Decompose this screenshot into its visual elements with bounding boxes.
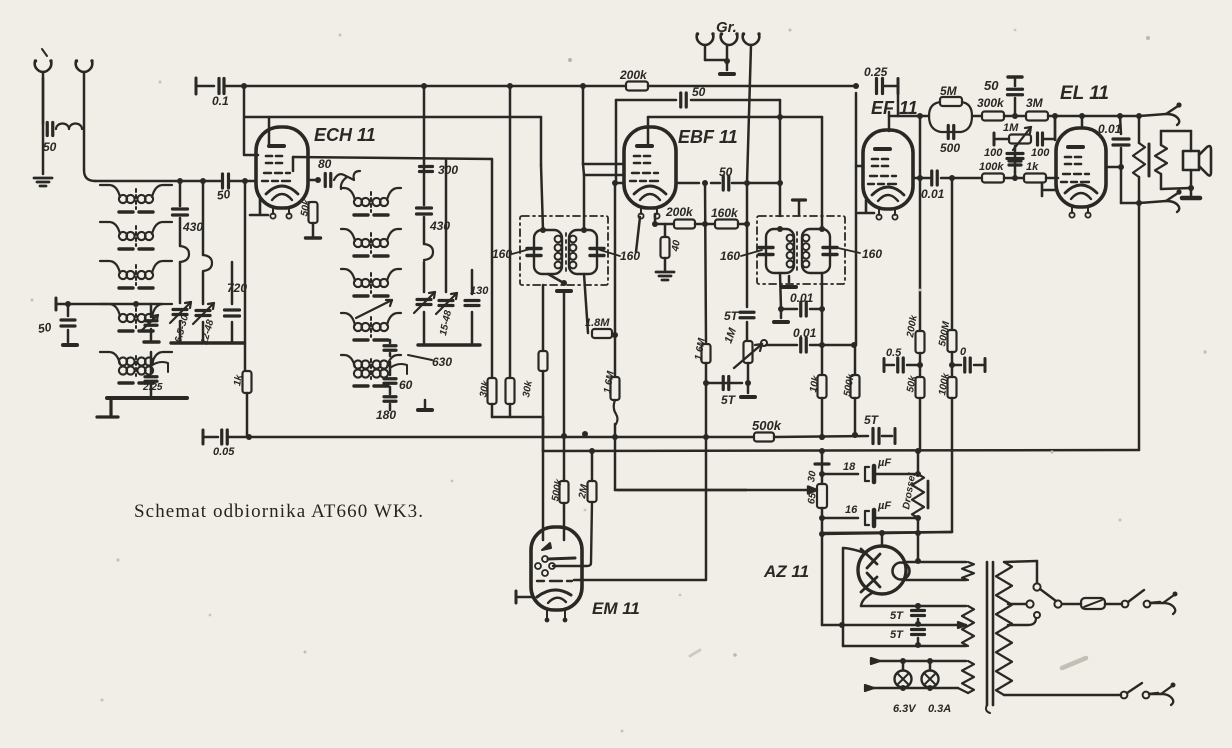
svg-text:630: 630 — [432, 355, 452, 369]
IF transformer T1 shield (dashed box) — [520, 216, 608, 285]
wire x918 vertical — [917, 451, 920, 474]
capacitor 5T (filter a) — [912, 611, 925, 616]
svg-text:AZ 11: AZ 11 — [763, 562, 809, 581]
wire x822 top feed — [821, 117, 824, 229]
tube ECH11 envelope — [256, 127, 308, 208]
hook (output bottom) — [1166, 193, 1178, 201]
tube EBF11 cathode — [634, 186, 666, 194]
transformer 6.3V winding — [962, 661, 974, 693]
resistor 65/30 (bleeder) — [815, 462, 829, 465]
svg-text:2.25: 2.25 — [142, 382, 163, 393]
wire x584 diode line — [584, 174, 624, 177]
IF T1 primary tank — [534, 230, 562, 274]
IF T2 ground — [788, 276, 791, 282]
svg-text:80: 80 — [318, 157, 332, 171]
resistor 3M — [1026, 112, 1048, 121]
antenna band coil L1 — [119, 195, 127, 203]
svg-text:180: 180 — [376, 408, 396, 422]
antenna band coil L2 — [119, 232, 127, 240]
svg-text:0.01: 0.01 — [921, 187, 945, 201]
capacitor 0.01 (a) — [781, 308, 797, 311]
capacitor 0.01 (b) — [766, 344, 797, 347]
capacitor 50 (H2) — [681, 93, 687, 107]
wire x856 to EF11 grid — [855, 93, 858, 345]
IF T2 shield tap — [793, 198, 806, 201]
resistor 2M — [591, 451, 594, 480]
capacitor 0.1 — [219, 79, 224, 94]
capacitor 50 (EBF out) — [723, 176, 729, 190]
IF T1 core dashes — [565, 233, 567, 275]
wire EBF cathode pins — [654, 214, 657, 224]
trimmer (gang2 a) — [417, 300, 431, 305]
capacitor 630 (padder) — [389, 340, 392, 343]
wire y181 main tuning line — [95, 180, 221, 183]
ground (pot) — [747, 383, 750, 393]
tube EF11 anode — [875, 147, 890, 151]
wire bus2 — [543, 450, 1139, 451]
nodes on H1 — [241, 83, 247, 89]
EM11 deflector flag — [542, 543, 551, 550]
trimmer (L4) — [150, 304, 153, 317]
wire x543 down — [542, 285, 545, 350]
capacitor 50 (antenna) — [42, 78, 45, 174]
wire 200k/160k line — [636, 217, 640, 252]
resistor 1.6M (x706) — [702, 344, 711, 363]
AZ11 anodes — [861, 549, 880, 568]
oscillator band coil L13 — [354, 279, 362, 287]
oscillator trimmer arrow — [356, 300, 392, 318]
tube ECH11 cathode — [266, 186, 298, 194]
resistor 500k (bus) — [754, 433, 774, 442]
wire EM11 line to bleeder tap — [746, 489, 815, 491]
node 180/181 — [177, 178, 183, 184]
wire filament lead 3 — [843, 645, 966, 648]
ground L-symbol — [97, 400, 118, 417]
tube EF11 cathode — [872, 187, 904, 195]
wire y116 to output — [1081, 116, 1084, 128]
output transformer primary — [1138, 116, 1141, 143]
capacitor 180 — [389, 387, 392, 394]
resistor 1.6M (x615) — [614, 335, 617, 375]
ground (speaker) — [1190, 188, 1193, 196]
wire det out — [821, 309, 824, 345]
primary top lead — [1004, 561, 1037, 562]
pickup jacks — [696, 32, 715, 45]
wire bus2 riser to output — [1138, 203, 1141, 450]
tube EM11 envelope — [531, 527, 582, 610]
pilot lamp 2 — [929, 661, 932, 670]
voltage tap 2 — [1008, 624, 1028, 627]
tube ECH11 pins — [273, 208, 289, 214]
resistor 200k (AVC) — [626, 82, 648, 91]
wire output bottom — [1121, 202, 1139, 205]
wire filament center lead — [822, 624, 966, 627]
coupling coil — [56, 124, 82, 130]
svg-text:1M: 1M — [1003, 122, 1019, 134]
capacitor 5T (bus1 end) — [873, 429, 879, 444]
AZ11 top lead — [881, 534, 884, 546]
resistor 100k (b) — [951, 365, 954, 376]
wire x920 down — [919, 178, 922, 330]
capacitor 0.25 — [877, 79, 883, 94]
resistor 500k (det) — [854, 345, 857, 374]
switch (mains a) — [1122, 601, 1129, 608]
resistor 100k — [982, 174, 1004, 183]
svg-text:50: 50 — [692, 85, 706, 99]
tube AZ11 envelope — [858, 546, 906, 594]
antenna band coil L4 — [119, 314, 127, 322]
svg-text:160: 160 — [720, 249, 740, 263]
capacitor 300 — [445, 159, 448, 292]
fuse — [1062, 603, 1081, 606]
capacitor 0.01 (EF out) — [932, 171, 938, 185]
wire EF11 plate stem — [888, 112, 891, 131]
IF T2 secondary tank — [802, 229, 830, 273]
switch (mains b) — [1121, 692, 1128, 699]
transformer primary winding — [996, 562, 1012, 695]
IF T1 secondary tank — [569, 230, 597, 274]
svg-text:EBF 11: EBF 11 — [678, 127, 738, 147]
svg-text:0.05: 0.05 — [213, 446, 235, 458]
svg-text:5T: 5T — [890, 610, 904, 622]
svg-text:5M: 5M — [940, 84, 958, 98]
svg-text:160: 160 — [492, 247, 512, 261]
plug prong a — [1152, 602, 1163, 605]
wire x952 vertical — [951, 178, 954, 329]
wire 30k common — [491, 404, 494, 417]
wire ECH11 osc grid line — [292, 157, 295, 171]
resistor 200k (diode load) — [674, 220, 695, 229]
wire vertical x245 (AVC) — [243, 85, 246, 155]
ground (band filter) — [63, 343, 77, 347]
wire T1 secondary bottom to 1.8M — [584, 274, 588, 333]
hook (output top) — [1166, 106, 1178, 114]
wire EM11 feeds — [563, 436, 566, 480]
wire T2 leads down — [780, 273, 781, 309]
wire x615 long vertical — [615, 100, 618, 183]
wire H2 50pF line — [616, 99, 676, 102]
capacitor 60 — [389, 362, 392, 375]
wire EM11 target line — [574, 579, 580, 582]
svg-text:1k: 1k — [1026, 161, 1039, 173]
svg-text:130: 130 — [470, 285, 489, 297]
heater rail bottom — [865, 685, 874, 691]
capacitor 50 (mixer grid) — [223, 174, 229, 188]
svg-text:50: 50 — [719, 165, 733, 179]
wire ECH11 anode to IF1 — [268, 117, 271, 146]
svg-text:0.5: 0.5 — [886, 347, 902, 359]
svg-text:430: 430 — [182, 220, 203, 234]
wire y178 run — [913, 177, 931, 180]
tube EL11 anode — [1068, 145, 1083, 149]
svg-text:5T: 5T — [724, 309, 740, 323]
svg-text:60: 60 — [399, 378, 413, 392]
svg-text:3M: 3M — [1026, 96, 1044, 110]
svg-text:1.8M: 1.8M — [585, 317, 610, 329]
wire vertical x180 — [179, 181, 182, 206]
trimmer 12-48 — [196, 311, 210, 316]
capacitor 0.05 — [222, 430, 228, 444]
svg-text:50: 50 — [43, 140, 57, 154]
selector blade — [1040, 589, 1056, 601]
svg-text:0.3A: 0.3A — [928, 703, 951, 715]
antenna A1 — [42, 49, 47, 56]
transformer core — [986, 562, 989, 705]
trimmer 6.5-30 — [173, 310, 187, 315]
tube EL11 grids — [1065, 157, 1081, 164]
trimmer 15-48 — [439, 301, 453, 306]
wire vertical x232 — [231, 262, 234, 304]
svg-text:300: 300 — [438, 163, 458, 177]
svg-text:EL 11: EL 11 — [1060, 83, 1109, 104]
wire bus1 (chassis) — [202, 430, 205, 444]
oscillator band coil L12 — [354, 239, 362, 247]
capacitor 0.01 (EL plate) — [1120, 116, 1121, 134]
svg-text:50: 50 — [37, 320, 53, 336]
gang base bar right — [418, 343, 480, 346]
antenna band coil L5 — [119, 357, 127, 365]
svg-text:200k: 200k — [619, 68, 648, 82]
tube EL11 cathode — [1065, 185, 1097, 193]
choke Drossel — [912, 474, 924, 518]
wire Gr line x747 — [747, 45, 751, 183]
ground (osc) — [424, 400, 427, 408]
svg-text:40: 40 — [670, 239, 683, 253]
IF T2 core dashes — [796, 232, 798, 274]
svg-text:0: 0 — [960, 346, 967, 358]
capacitor 0.5 — [886, 364, 894, 367]
svg-text:Gr.: Gr. — [716, 19, 737, 36]
AZ11 pinch circle — [893, 563, 910, 580]
AZ11 plate leads to HT winding — [906, 561, 966, 564]
resistor 160k — [715, 220, 738, 229]
capacitor 50 (screen) — [1014, 98, 1017, 116]
resistor 200k (divider) — [916, 331, 925, 353]
wire x706 vertical — [705, 183, 706, 342]
EM11 grid dash — [537, 580, 572, 582]
wire EBF11 top grid — [647, 117, 650, 146]
EM11 cathode arc — [537, 590, 571, 597]
capacitor 5T (cathode) — [706, 382, 742, 385]
wire x920 vertical — [919, 116, 922, 178]
capacitor 16uF — [822, 517, 858, 520]
coil column base bar — [107, 396, 187, 400]
transformer HT winding — [962, 562, 974, 580]
resistor 500k (EM11) — [560, 481, 569, 503]
EF11 cathode stub — [858, 200, 874, 213]
capacitor 18uF — [822, 473, 858, 476]
speaker — [1183, 151, 1199, 170]
resistor 50k (divider) — [919, 365, 922, 376]
EL11 grid entry — [1054, 116, 1057, 140]
AZ11 left lead — [843, 548, 865, 553]
ground (pickup) — [720, 72, 734, 76]
capacitor 130 — [471, 270, 474, 294]
primary bottom lead — [1004, 694, 1121, 697]
svg-text:EM 11: EM 11 — [592, 599, 640, 618]
wire row4 tap line — [56, 303, 162, 306]
capacitor 80 — [325, 174, 331, 187]
EM11 left stub — [517, 596, 533, 599]
wire y533 HT line — [822, 532, 952, 534]
wire y181 into ECH11 — [308, 179, 318, 181]
wire vertical x424 — [423, 86, 426, 205]
tube EL11 pins — [1072, 207, 1088, 213]
smudge — [1062, 658, 1086, 668]
ECH11 cathode stub — [250, 198, 268, 215]
oscillator band coil L14 — [354, 323, 362, 331]
resistor 500M — [948, 330, 957, 352]
svg-text:6.3V: 6.3V — [893, 703, 917, 715]
wire y116 coupling run — [889, 115, 929, 118]
svg-text:50: 50 — [216, 187, 231, 203]
svg-text:ECH 11: ECH 11 — [314, 125, 376, 145]
svg-text:Schemat odbiornika AT660 WK3.: Schemat odbiornika AT660 WK3. — [134, 501, 424, 522]
wire x822 vertical (HT) — [821, 451, 824, 462]
heater rail top — [871, 658, 880, 664]
oscillator band coil L11 — [354, 198, 362, 206]
svg-text:100: 100 — [984, 147, 1003, 159]
pilot lamp 1 — [902, 661, 905, 670]
EM11 pins — [547, 610, 565, 619]
AZ11 cathode lead — [861, 592, 874, 606]
svg-text:µF: µF — [877, 500, 891, 512]
tube EF11 grids — [872, 159, 888, 166]
svg-text:18: 18 — [843, 461, 856, 473]
svg-text:500k: 500k — [752, 418, 782, 433]
svg-text:300k: 300k — [977, 96, 1005, 110]
capacitor 5T (filter b) — [912, 630, 925, 635]
capacitor 100 (stack) — [1014, 146, 1017, 172]
svg-text:16: 16 — [845, 504, 858, 516]
svg-text:0.01: 0.01 — [1098, 122, 1122, 136]
resistor 1k (x245) — [243, 371, 252, 393]
resistor 50k — [309, 202, 318, 223]
ground (0.01a) — [780, 309, 783, 318]
svg-text:0.1: 0.1 — [212, 94, 229, 108]
wire EBF plate 50pF right — [676, 182, 699, 185]
resistor 300k — [982, 112, 1004, 121]
resistor 30k (a) — [488, 378, 497, 404]
resistor 30k (b) — [509, 86, 512, 377]
capacitor 100 (right) — [1038, 133, 1043, 145]
resistor 1k — [1024, 174, 1046, 183]
svg-text:160k: 160k — [711, 206, 739, 220]
oscillator band coil L15 — [354, 360, 362, 368]
EL11 cathode stub — [1042, 184, 1056, 196]
svg-text:0.01: 0.01 — [793, 326, 817, 340]
tube EF11 pins — [879, 209, 895, 215]
label 630 with leader — [408, 355, 432, 360]
svg-text:200k: 200k — [665, 205, 694, 219]
antenna band coil L3 — [119, 271, 127, 279]
capacitor 0 (right) — [952, 364, 961, 367]
capacitor 500 — [948, 126, 954, 139]
tube EBF11 pins — [641, 208, 657, 214]
resistor 10k — [821, 345, 824, 374]
output transformer secondary — [1155, 145, 1167, 174]
wire x543 IF1 primary top — [540, 117, 543, 165]
output transformer core — [1148, 144, 1151, 176]
IF T2 primary tank — [766, 229, 794, 273]
plug prong b — [1150, 693, 1161, 696]
svg-text:160: 160 — [862, 247, 882, 261]
capacitor 2.25 (L5) — [150, 352, 153, 373]
svg-text:0.01: 0.01 — [790, 291, 814, 305]
capacitor 50 (band filter) — [67, 304, 70, 316]
wire x583 H1 to EBF grid — [582, 86, 585, 164]
IF T1 ground — [548, 274, 562, 282]
IF transformer T2 shield (dashed box) — [757, 216, 845, 284]
capacitor 720 — [225, 310, 240, 316]
wire hook to osc coil — [334, 171, 360, 180]
svg-text:50: 50 — [984, 78, 999, 93]
svg-text:0.25: 0.25 — [864, 65, 888, 79]
potentiometer 1M (volume) — [744, 341, 753, 363]
tube EL11 envelope — [1056, 128, 1106, 207]
svg-text:100k: 100k — [979, 161, 1004, 173]
tube EBF11 envelope — [624, 127, 676, 208]
resistor 5M parallel group — [929, 102, 972, 132]
tube EBF11 grids — [634, 156, 650, 163]
EM11 target electrodes — [542, 556, 548, 562]
antenna A2 — [75, 59, 94, 72]
specks — [568, 58, 572, 62]
svg-text:5T: 5T — [864, 413, 880, 427]
tube EBF11 anode — [637, 144, 652, 148]
svg-text:500: 500 — [940, 141, 960, 155]
svg-text:100: 100 — [1031, 147, 1050, 159]
wire vertical x203 — [202, 181, 205, 255]
wire H1 top bus — [195, 78, 198, 94]
tube EF11 envelope — [863, 130, 913, 209]
tube ECH11 grids — [266, 156, 282, 163]
resistor 40 — [664, 224, 667, 236]
capacitor 430 (left gang) — [173, 209, 188, 215]
svg-text:µF: µF — [877, 457, 891, 469]
gang base bar left — [171, 341, 244, 344]
wire osc grid drop x492 — [491, 159, 494, 377]
ground (antenna) — [34, 178, 52, 186]
svg-text:5T: 5T — [721, 393, 737, 407]
ground (40) — [656, 272, 674, 280]
resistor 1.8M — [592, 329, 612, 338]
voltage tap — [1008, 603, 1026, 606]
tube ECH11 anode — [269, 144, 284, 148]
transformer rectifier filament winding — [962, 606, 974, 646]
svg-text:5T: 5T — [890, 629, 904, 641]
